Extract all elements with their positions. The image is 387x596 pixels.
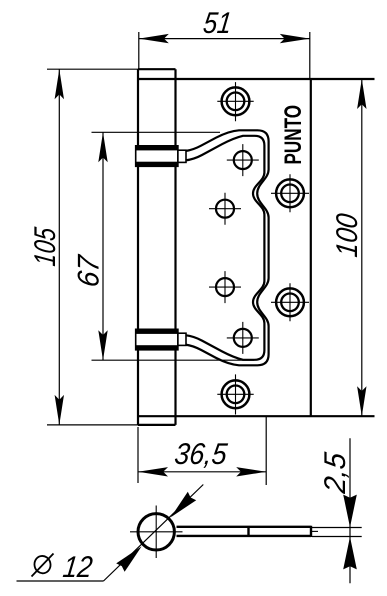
dimension 105: bottom arrowhead	[55, 395, 64, 425]
diameter 12 leader: upper-right arrowhead (pointing to circle)	[171, 492, 196, 517]
dimension 105: top arrowhead	[55, 69, 64, 99]
dimension 51: extension lines	[139, 32, 310, 79]
dimension 36,5: right arrowhead	[236, 467, 266, 476]
dimension 51: dimension line	[139, 38, 310, 40]
dimension 105: dimension line	[58, 69, 60, 425]
svg-text:51: 51	[201, 7, 233, 40]
stamped sheet inner outline, inner curve	[186, 136, 265, 360]
dimension 51: left arrowhead	[139, 34, 169, 43]
dimension 36,5: extension lines	[138, 417, 266, 486]
svg-text:100: 100	[331, 212, 364, 259]
dimension 100: bottom arrowhead	[357, 386, 366, 416]
countersunk screw hole bottom, with center cross	[217, 374, 253, 414]
svg-text:36,5: 36,5	[173, 438, 229, 471]
right screw hole upper, with center cross	[271, 174, 309, 212]
svg-text:PUNTO: PUNTO	[280, 105, 307, 165]
diameter 12 leader: diagonal line	[104, 485, 204, 582]
dimension 2,5: extension lines	[312, 528, 362, 537]
dimension 100: dimension line	[361, 79, 363, 416]
pin side view: rod tip centerline dash	[311, 530, 318, 532]
svg-text:105: 105	[29, 226, 62, 268]
right screw hole lower, with center cross	[271, 283, 309, 321]
bottom strap bracket on knuckle	[136, 329, 186, 350]
dimension 2,5: dimension line (vertical)	[349, 438, 351, 583]
dimension 36,5: left arrowhead	[138, 467, 168, 476]
small hole 1, with center cross	[227, 144, 259, 176]
svg-text:2,5: 2,5	[319, 451, 352, 496]
pin end view: center cross	[130, 506, 183, 559]
pin end view: circle	[138, 514, 174, 550]
hinge knuckle barrel (left vertical bar)	[138, 69, 176, 425]
top strap bracket on knuckle	[136, 146, 186, 167]
dimension 2,5: lower arrowhead (pointing up)	[343, 537, 357, 570]
hinge leaf plate outline	[138, 79, 375, 416]
dimension 51: right arrowhead	[280, 34, 310, 43]
diameter symbol	[32, 554, 54, 577]
small hole 4, with center cross	[227, 322, 259, 354]
countersunk screw hole top, with center cross	[217, 82, 253, 121]
stamped sheet inner outline, outer curve	[186, 130, 269, 365]
dimension 67: dimension line	[102, 132, 104, 360]
diameter 12 leader: lower-left arrowhead (pointing to circle)	[116, 546, 141, 571]
dimension 67: top arrowhead	[98, 132, 107, 162]
svg-text:67: 67	[72, 253, 105, 289]
pin side view: rod body	[177, 526, 312, 537]
svg-text:12: 12	[61, 551, 94, 584]
dimension 67: extension lines	[92, 132, 255, 360]
dimension 36,5: dimension line	[138, 471, 266, 473]
small hole 3, with center cross	[209, 271, 241, 303]
small hole 2, with center cross	[209, 193, 241, 225]
dimension 2,5: upper arrowhead (pointing down)	[343, 495, 357, 528]
dimension 105: extension lines	[47, 69, 138, 425]
diameter 12 leader: underline	[17, 580, 104, 582]
dimension 100: top arrowhead	[357, 79, 366, 109]
dimension 67: bottom arrowhead	[98, 330, 107, 360]
